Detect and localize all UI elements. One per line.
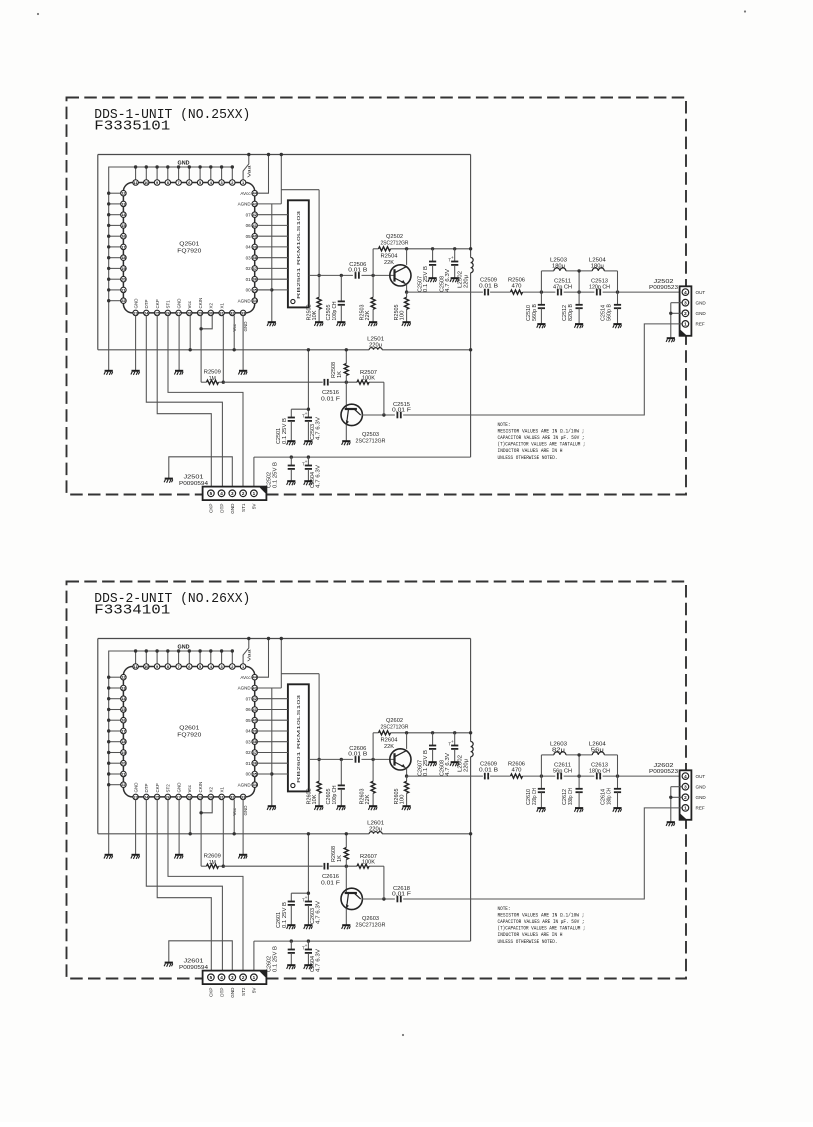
wire top pin stubs to GND bus [134, 649, 234, 664]
svg-text:+: + [305, 944, 308, 949]
wire collector [406, 249, 408, 265]
wire pin27 to ground [174, 800, 183, 859]
wire DAC top loop [280, 637, 321, 780]
svg-text:0.01 F: 0.01 F [392, 892, 411, 898]
resistor R2505 100 [394, 292, 409, 322]
svg-text:ST1: ST1 [166, 300, 171, 309]
wire output line [407, 290, 682, 293]
svg-text:F3334101: F3334101 [94, 603, 170, 619]
svg-text:82μ: 82μ [552, 748, 565, 754]
svg-text:0.1 25V B: 0.1 25V B [423, 749, 429, 776]
svg-text:220μ: 220μ [369, 826, 382, 832]
transistor Q2602 2SC2712GR [381, 718, 412, 770]
capacitor C2604 4.7 6.3V tantalum [302, 941, 322, 972]
resistor R2507 100K [357, 370, 377, 384]
connector J2501 P0090594 [179, 475, 266, 501]
svg-text:CKIN: CKIN [198, 298, 203, 309]
ground C2514 [613, 324, 622, 328]
wire collector to C-out [362, 866, 395, 901]
ground C2607 [428, 762, 437, 766]
svg-text:00: 00 [246, 772, 252, 777]
svg-text:P0090594: P0090594 [179, 965, 208, 971]
svg-text:470: 470 [512, 284, 522, 290]
svg-text:GND: GND [176, 298, 181, 309]
capacitor C2515 0.01 F [392, 402, 411, 418]
capacitor C2507 0.1 25V B [417, 249, 436, 292]
wire left pin stubs to GND bus [107, 676, 121, 787]
svg-text:C2516: C2516 [322, 390, 339, 396]
resistor-network RB2601 RKM10LS103 [288, 684, 309, 791]
svg-text:560p B: 560p B [532, 303, 538, 321]
svg-text:GND: GND [696, 300, 707, 305]
wire REF line [403, 808, 682, 899]
svg-text:CKP: CKP [155, 299, 160, 308]
svg-text:100: 100 [400, 794, 406, 804]
svg-text:2SC2712GR: 2SC2712GR [356, 438, 386, 444]
svg-text:560p B: 560p B [607, 303, 613, 321]
note text block [498, 422, 586, 461]
svg-text:01: 01 [246, 761, 252, 766]
label Vcc pin32 [232, 807, 237, 815]
wire emitter node [405, 769, 408, 778]
wire pin43 AGND [257, 687, 281, 689]
wire pin23 to ground [131, 800, 140, 859]
ground C2614 [613, 808, 622, 812]
svg-text:0.1 25V B: 0.1 25V B [282, 417, 288, 444]
svg-text:X2: X2 [209, 302, 214, 308]
svg-text:30: 30 [209, 794, 213, 799]
wire DTP stair [146, 800, 222, 971]
svg-text:NOTE:: NOTE: [498, 906, 511, 912]
svg-text:CKP: CKP [209, 988, 214, 997]
resistor R2609 1M [201, 800, 223, 869]
svg-text:220μ: 220μ [464, 275, 470, 288]
ground connector [666, 822, 675, 826]
svg-text:5: 5 [210, 975, 213, 980]
IC Q2501 FQ7920 body [123, 183, 254, 313]
svg-text:R2606: R2606 [508, 761, 525, 767]
wire Vcc top rail [98, 154, 471, 156]
svg-text:180p CH: 180p CH [589, 768, 610, 774]
svg-text:AGND: AGND [238, 782, 252, 787]
svg-text:DTP: DTP [219, 988, 224, 997]
svg-text:GND: GND [133, 298, 138, 309]
svg-text:220p CH: 220p CH [532, 788, 538, 805]
label GND pin33 [243, 805, 248, 816]
svg-text:22K: 22K [365, 310, 371, 321]
wire AGND rail [270, 204, 273, 322]
svg-text:ST1: ST1 [241, 503, 246, 512]
svg-text:03: 03 [246, 255, 252, 260]
wire pin44 AVcc riser [257, 153, 270, 193]
svg-text:3: 3 [684, 784, 687, 789]
svg-text:17: 17 [121, 244, 125, 249]
wire emitter node [405, 285, 408, 294]
ground C2603 [304, 925, 313, 929]
svg-text:AVcc: AVcc [240, 191, 251, 196]
svg-text:Q2502: Q2502 [386, 234, 403, 240]
svg-text:(T)CAPACITOR VALUES ARE TANTAL: (T)CAPACITOR VALUES ARE TANTALUM ; [498, 442, 586, 448]
capacitor C2511 47p CH [553, 278, 572, 295]
ground R2505 [402, 322, 411, 326]
svg-text:Q2603: Q2603 [362, 916, 379, 922]
svg-text:7: 7 [178, 180, 180, 185]
svg-text:7: 7 [178, 664, 180, 669]
inductor L2603 82μ [550, 742, 567, 755]
svg-text:C2616: C2616 [322, 874, 339, 880]
svg-text:FQ7920: FQ7920 [177, 732, 201, 738]
ground connector GND stub [164, 479, 173, 483]
resistor R2506 470 [508, 277, 525, 294]
capacitor C2508 4.7 6.3V tantalum [439, 249, 458, 292]
dashed border frame DDS-2-UNIT [67, 582, 687, 979]
wire Vcc horizontal bus [98, 833, 471, 835]
capacitor C2609 0.01 B [479, 761, 499, 779]
wire collector to C-out [362, 382, 395, 416]
resistor R2509 1M [201, 316, 223, 385]
svg-text:4: 4 [220, 491, 223, 496]
wire pin34 AGND stub [257, 289, 271, 291]
svg-text:+: + [305, 896, 308, 901]
wire GND bus [104, 167, 233, 375]
resistor R2504 22K [379, 247, 398, 266]
svg-text:AGND: AGND [238, 298, 252, 303]
IC right pin labels [238, 675, 252, 788]
svg-text:20: 20 [121, 761, 125, 766]
svg-text:2SC2712GR: 2SC2712GR [356, 922, 386, 928]
svg-text:P0090523: P0090523 [649, 769, 678, 775]
ground R2502 [314, 322, 323, 326]
ground C2504 [304, 481, 313, 485]
connector J2602 P0090523 [649, 763, 691, 820]
capacitor C2505 100p CH [326, 275, 345, 321]
inductor L2601 220u [367, 821, 384, 834]
svg-text:P0090594: P0090594 [179, 481, 208, 487]
svg-text:17: 17 [121, 728, 125, 733]
svg-text:1M: 1M [209, 376, 216, 382]
svg-text:RESISTOR VALUES ARE IN Ω.1/10: RESISTOR VALUES ARE IN Ω.1/10W ; [498, 913, 585, 919]
svg-text:100p CH: 100p CH [332, 301, 338, 320]
svg-text:UNLESS OTHERWISE NOTED.: UNLESS OTHERWISE NOTED. [498, 455, 558, 461]
svg-text:47p CH: 47p CH [553, 284, 572, 290]
svg-text:Q2602: Q2602 [386, 718, 403, 724]
wire filter bypass rail [541, 269, 617, 292]
inductor L2502 220u [458, 258, 473, 289]
svg-text:1: 1 [253, 491, 256, 496]
svg-text:P0090523: P0090523 [649, 285, 678, 291]
capacitor C2503 4.7 6.3V tantalum [302, 412, 322, 441]
svg-text:CKP: CKP [209, 504, 214, 513]
svg-text:RESISTOR VALUES ARE IN Ω.1/10: RESISTOR VALUES ARE IN Ω.1/10W ; [498, 429, 585, 435]
wire pin28 Vcc drop [189, 800, 192, 836]
svg-text:37: 37 [253, 266, 257, 271]
title DDS-1-UNIT (NO.25XX) [94, 107, 250, 134]
svg-text:+: + [451, 256, 454, 261]
ground Q2603 emitter [342, 909, 351, 930]
resistor R2603 22K [359, 759, 375, 805]
wire top pin stubs to GND bus [134, 165, 234, 180]
IC right pin labels [238, 191, 252, 303]
capacitor C2506 0.01 B [348, 262, 368, 279]
svg-text:3: 3 [231, 975, 234, 980]
svg-text:F3335101: F3335101 [94, 119, 170, 135]
svg-text:+: + [305, 460, 308, 465]
ground C2503 [304, 441, 313, 445]
svg-text:0.01 F: 0.01 F [321, 880, 340, 886]
wire GND bus [104, 651, 233, 859]
wire 5V riser to connector pin1 [253, 457, 255, 487]
svg-text:Vaa: Vaa [247, 165, 252, 178]
svg-text:R2504: R2504 [381, 254, 398, 260]
svg-text:4.7 6.3V: 4.7 6.3V [316, 948, 322, 972]
svg-text:GND: GND [176, 782, 181, 793]
capacitor C2610 220p CH [526, 776, 545, 808]
wire connector GND stub line [169, 457, 233, 487]
transistor Q2502 2SC2712GR [381, 234, 412, 286]
capacitor C2613 180p CH [589, 762, 610, 779]
wire pin27 to ground [174, 316, 183, 375]
transistor Q2503 2SC2712GR [341, 382, 386, 444]
svg-text:0.1 25V B: 0.1 25V B [282, 901, 288, 928]
svg-text:0.1 25V B: 0.1 25V B [272, 945, 278, 972]
svg-text:4.7 6.3V: 4.7 6.3V [316, 416, 322, 440]
ground C2612 [574, 808, 583, 812]
svg-text:03: 03 [246, 739, 252, 744]
wire pin43 AGND [257, 203, 281, 205]
wire data bus 07-00 to DAC [257, 699, 288, 774]
page speck top-left [37, 13, 39, 15]
wire pin33 to ground [238, 800, 247, 859]
svg-text:REF: REF [696, 806, 705, 811]
svg-text:GND: GND [133, 782, 138, 793]
svg-text:GND: GND [230, 503, 235, 514]
wire base line [223, 381, 384, 384]
labels OUT GND GND REF [696, 290, 707, 327]
svg-text:22K: 22K [384, 260, 395, 266]
svg-text:4: 4 [684, 774, 687, 779]
inductor L2501 220u [367, 337, 384, 350]
svg-text:CKIN: CKIN [198, 782, 203, 793]
capacitor C2606 0.01 B [348, 746, 368, 763]
svg-text:2SC2712GR: 2SC2712GR [381, 240, 409, 246]
svg-text:CKP: CKP [155, 783, 160, 792]
connector J2601 P0090594 [179, 959, 266, 985]
svg-text:10: 10 [144, 664, 148, 669]
wire CKP stair [157, 800, 211, 971]
svg-text:GND: GND [696, 311, 707, 316]
wire Vcc right rail [470, 639, 472, 942]
svg-text:100p CH: 100p CH [332, 785, 338, 804]
ground C2601 [287, 925, 296, 929]
resistor R2608 1K [331, 832, 348, 866]
svg-text:AGND: AGND [238, 686, 252, 691]
ground R2602 [314, 806, 323, 810]
wire filter bypass rail [541, 753, 617, 776]
wire 5V cap drops [290, 455, 311, 458]
wire Vcc top rail [98, 638, 471, 640]
svg-text:Q2601: Q2601 [179, 726, 199, 732]
wire left pin stubs to GND bus [107, 192, 121, 303]
labels OUT GND GND REF [696, 774, 707, 811]
capacitor C2510 560p B [526, 292, 545, 324]
resistor R2605 100 [394, 776, 409, 806]
wire output line [407, 774, 682, 777]
capacitor C2607 0.1 25V B [417, 733, 436, 776]
svg-text:GND: GND [696, 784, 707, 789]
wire DAC top loop [280, 153, 321, 296]
svg-text:J2502: J2502 [654, 279, 674, 285]
IC bottom pin labels [133, 782, 224, 793]
inductor L2602 220u [458, 742, 473, 773]
ground C2508 [450, 278, 459, 282]
svg-text:4.7 6.3V: 4.7 6.3V [316, 464, 322, 488]
svg-text:01: 01 [246, 277, 252, 282]
wire X2 link [199, 316, 212, 331]
ground R2603 [368, 806, 377, 810]
svg-text:5V: 5V [252, 987, 257, 994]
svg-text:330p CH: 330p CH [568, 788, 574, 805]
svg-text:100: 100 [400, 310, 406, 320]
wire 5V cap drops [290, 939, 311, 942]
svg-text:X1: X1 [219, 302, 224, 308]
label Vaa [247, 649, 252, 662]
svg-text:L2504: L2504 [589, 258, 606, 264]
svg-text:0.1 25V B: 0.1 25V B [423, 265, 429, 292]
wire feedback rail [373, 247, 472, 275]
svg-text:AGND: AGND [238, 202, 252, 207]
svg-text:04: 04 [246, 245, 252, 250]
wire Vcc right rail [470, 155, 472, 458]
IC bottom pin labels [133, 298, 224, 309]
wire pin44 AVcc riser [257, 637, 270, 677]
wire AGND rail [270, 688, 273, 806]
svg-text:1K: 1K [337, 854, 343, 862]
wire pin1 Vaa riser [243, 153, 250, 180]
svg-text:40: 40 [253, 234, 257, 239]
wire pin34 AGND stub [257, 773, 271, 775]
svg-text:220μ: 220μ [464, 759, 470, 772]
svg-text:DTP: DTP [144, 300, 149, 309]
svg-text:5V: 5V [252, 503, 257, 510]
ground C2610 [537, 808, 546, 812]
ground AGND rail [267, 806, 276, 810]
capacitor C2618 0.01 F [392, 886, 411, 902]
wire ST stair [168, 800, 243, 971]
capacitor C2504 4.7 6.3V tantalum [302, 457, 322, 488]
svg-text:120p CH: 120p CH [589, 284, 610, 290]
svg-text:C2509: C2509 [480, 277, 497, 283]
svg-text:07: 07 [246, 212, 252, 217]
wire DTP stair [146, 316, 222, 487]
ground connector [666, 338, 675, 342]
inductor L2604 56μ [589, 742, 606, 755]
capacitor C2603 4.7 6.3V tantalum [302, 896, 322, 925]
svg-text:0.01 B: 0.01 B [479, 284, 499, 290]
wire Vcc horizontal bus [98, 349, 471, 351]
svg-text:L2604: L2604 [589, 742, 606, 748]
IC bottom pins 23..33 [133, 794, 246, 800]
svg-text:ST2: ST2 [241, 987, 246, 996]
svg-text:NOTE:: NOTE: [498, 422, 511, 428]
label Vaa [247, 165, 252, 178]
svg-text:06: 06 [246, 223, 252, 228]
svg-text:GND: GND [696, 795, 707, 800]
ground C2604 [304, 965, 313, 969]
wire ST stair [168, 316, 243, 487]
svg-text:1M: 1M [209, 860, 216, 866]
resistor R2604 22K [379, 731, 398, 750]
wire DAC output node line [309, 758, 395, 761]
svg-text:07: 07 [246, 696, 252, 701]
IC top pins 11..1 [133, 664, 246, 670]
svg-text:05: 05 [246, 234, 252, 239]
svg-text:0.01 B: 0.01 B [348, 268, 368, 274]
IC right pins 44..34 [252, 190, 258, 303]
svg-text:22K: 22K [384, 744, 395, 750]
ground C2605 [337, 806, 346, 810]
svg-text:INDUCTOR VALUES ARE IN H: INDUCTOR VALUES ARE IN H [498, 448, 563, 454]
svg-text:27: 27 [176, 310, 180, 315]
svg-text:3: 3 [684, 300, 687, 305]
wire feedback rail [373, 731, 472, 759]
ground R2605 [402, 806, 411, 810]
svg-text:40: 40 [253, 718, 257, 723]
label Vcc pin32 [232, 323, 237, 331]
wire pin1 Vaa riser [243, 637, 250, 664]
svg-text:30: 30 [209, 310, 213, 315]
connector J2502 P0090523 [649, 279, 691, 336]
svg-text:R2609: R2609 [204, 854, 221, 860]
svg-text:DTP: DTP [144, 784, 149, 793]
svg-text:OUT: OUT [696, 290, 706, 295]
wire REF line [403, 324, 682, 415]
svg-text:100K: 100K [362, 376, 376, 382]
IC top pins 11..1 [133, 180, 246, 186]
dashed border frame DDS-1-UNIT [67, 98, 687, 495]
wire connector GND stub line [169, 941, 233, 971]
wire data bus 07-00 to DAC [257, 215, 288, 290]
svg-text:1: 1 [253, 975, 256, 980]
svg-text:0.01 B: 0.01 B [348, 752, 368, 758]
svg-text:INDUCTOR VALUES ARE IN H: INDUCTOR VALUES ARE IN H [498, 932, 563, 938]
wire DAC output node line [309, 274, 395, 277]
svg-text:AVcc: AVcc [240, 675, 251, 680]
svg-text:L2603: L2603 [550, 742, 567, 748]
capacitor C2608 4.7 6.3V tantalum [439, 733, 458, 776]
svg-text:J2602: J2602 [654, 763, 674, 769]
svg-text:22K: 22K [365, 794, 371, 805]
svg-text:RB2501 RKM10LS103: RB2501 RKM10LS103 [296, 210, 301, 299]
wire collector [406, 733, 408, 749]
svg-text:2: 2 [242, 975, 245, 980]
capacitor C2616 0.01 F [321, 863, 340, 887]
svg-text:100K: 100K [362, 860, 376, 866]
svg-text:4: 4 [220, 975, 223, 980]
svg-text:J2501: J2501 [184, 475, 204, 481]
wire 5V bottom rail [254, 456, 471, 458]
svg-text:Vcc: Vcc [187, 784, 192, 792]
svg-text:180p CH: 180p CH [607, 788, 613, 805]
ground connector GND stub [164, 963, 173, 967]
svg-text:05: 05 [246, 718, 252, 723]
capacitor C2614 180p CH [601, 776, 621, 808]
svg-text:20: 20 [121, 277, 125, 282]
IC left pins 12..22 [121, 190, 127, 303]
capacitor C2509 0.01 B [479, 277, 499, 295]
inductor L2503 180μ [550, 258, 567, 271]
svg-text:06: 06 [246, 707, 252, 712]
labels CKP DTP GND ST 5V [209, 503, 257, 514]
